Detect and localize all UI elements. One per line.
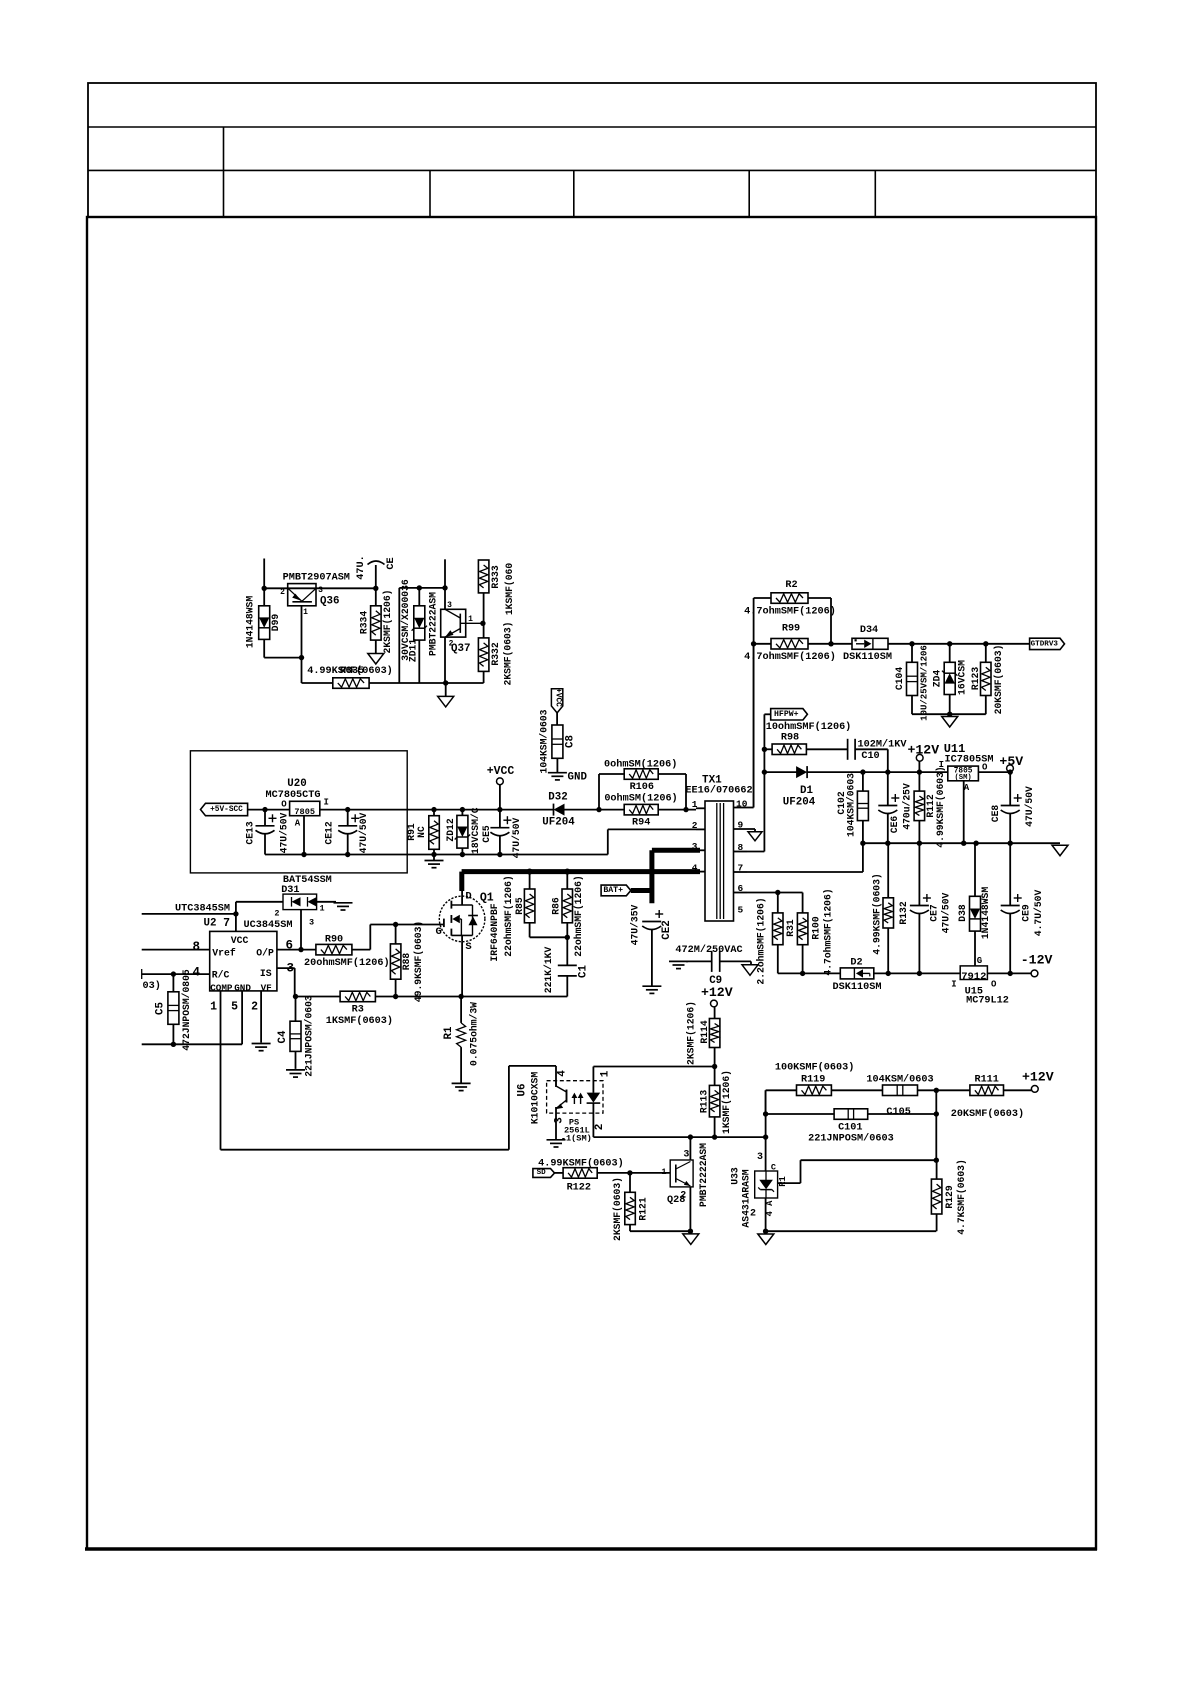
ground right of C9 <box>750 961 752 964</box>
resistor R333 <box>478 560 489 593</box>
svg-text:472JNPOSM/0805: 472JNPOSM/0805 <box>181 969 192 1051</box>
wire U33 R pin <box>778 1182 801 1184</box>
wire R119 to C105 <box>831 1089 882 1091</box>
svg-text:D38: D38 <box>957 904 968 922</box>
wire left loop up to ZD13 rail <box>398 588 400 683</box>
TX1 pin 1 stub <box>696 807 705 809</box>
junction R88 top <box>393 922 398 927</box>
svg-text:R122: R122 <box>567 1183 591 1194</box>
junction D99 top <box>262 586 267 591</box>
capacitor CE12 electrolytic <box>347 810 349 826</box>
wire R121 bottom rail <box>630 1230 690 1232</box>
svg-text:U6: U6 <box>516 1084 528 1097</box>
title block divider row3 e <box>874 170 876 217</box>
junction R88 bottom <box>393 994 398 999</box>
svg-text:47U.: 47U. <box>356 555 367 579</box>
wire R3 to source <box>375 996 567 998</box>
junction C1 top <box>565 935 570 940</box>
junction Q36 pin1 node <box>299 655 304 660</box>
svg-text:+VCC: +VCC <box>487 765 515 778</box>
diode D38 1N4148WSM <box>970 896 981 931</box>
ground TX1 pin 9 <box>754 829 756 832</box>
svg-text:R31: R31 <box>785 919 796 937</box>
svg-text:+12V: +12V <box>1022 1070 1054 1085</box>
svg-text:VF: VF <box>261 983 273 994</box>
svg-text:3: 3 <box>318 586 323 595</box>
resistor R132 <box>883 898 894 928</box>
wire C8 to GND <box>556 758 558 772</box>
svg-text:MC7805CTG: MC7805CTG <box>265 790 320 801</box>
svg-text:D: D <box>465 891 471 903</box>
resistor R85 <box>524 889 535 923</box>
node U20 ground rail <box>265 854 608 856</box>
diode D34 DSK110SM <box>852 638 888 649</box>
svg-text:VCC: VCC <box>231 935 249 946</box>
svg-text:7912: 7912 <box>961 971 986 983</box>
capacitor C102 <box>857 791 868 821</box>
wire Q37 emitter down <box>444 637 446 683</box>
svg-text:9: 9 <box>738 820 744 831</box>
svg-text:1: 1 <box>320 904 325 914</box>
svg-text:18VCSM/C: 18VCSM/C <box>470 807 481 854</box>
wire U2 COMP feedback down <box>220 991 222 1150</box>
capacitor CE5 electrolytic <box>499 810 501 828</box>
junction R334 top <box>373 586 378 591</box>
junction ground node <box>947 712 952 717</box>
svg-text:4.7KSMF(0603): 4.7KSMF(0603) <box>956 1159 967 1235</box>
svg-text:2: 2 <box>280 588 285 597</box>
svg-text:1: 1 <box>661 1167 666 1177</box>
resistor R1 0.075ohm <box>460 997 462 1023</box>
resistor R2 <box>771 593 808 604</box>
svg-text:3: 3 <box>309 918 314 928</box>
svg-text:Vref: Vref <box>212 947 236 958</box>
svg-text:R1: R1 <box>778 1176 788 1187</box>
junction CE5 bottom <box>497 852 502 857</box>
svg-text:R123: R123 <box>970 667 981 690</box>
svg-text:R3: R3 <box>352 1005 364 1016</box>
svg-text:G: G <box>435 926 441 938</box>
svg-text:2.2ohmSMF(1206): 2.2ohmSMF(1206) <box>756 897 767 984</box>
svg-text:CE9: CE9 <box>1021 904 1032 922</box>
svg-text:U20: U20 <box>287 778 306 790</box>
svg-text:22ohmSMF(1206): 22ohmSMF(1206) <box>573 875 584 956</box>
svg-text:D2: D2 <box>850 958 862 969</box>
junction U33 anode node <box>763 1229 768 1234</box>
svg-text:S: S <box>465 941 471 953</box>
junction R113 bottom <box>712 1134 717 1139</box>
svg-text:3: 3 <box>757 1152 763 1163</box>
svg-text:D1: D1 <box>800 785 813 797</box>
TX1 pin 4 stub <box>696 871 705 873</box>
zener ZD12 <box>457 815 468 848</box>
svg-text:5: 5 <box>738 905 744 916</box>
wire O/P pin6 <box>277 949 316 951</box>
svg-text:0ohmSM(1206): 0ohmSM(1206) <box>604 793 677 805</box>
svg-text:104KSM/0603: 104KSM/0603 <box>539 709 550 773</box>
svg-text:R113: R113 <box>699 1090 710 1113</box>
svg-text:20ohmSMF(1206): 20ohmSMF(1206) <box>304 957 390 969</box>
junction Q1 source node <box>458 994 463 999</box>
svg-text:UC3845SM: UC3845SM <box>244 920 293 931</box>
resistor R91 NC <box>429 816 440 850</box>
resistor R334 <box>371 606 382 640</box>
junction +5V node <box>1008 769 1013 774</box>
TX1 pin 2 stub <box>696 828 705 830</box>
wire R111 to +12V <box>1004 1089 1032 1091</box>
svg-text:47U/50V: 47U/50V <box>1024 786 1035 827</box>
capacitor C101 221JNPOSM <box>834 1109 868 1120</box>
svg-text:O: O <box>281 800 287 810</box>
MOSFET Q1 IRF640NPBF <box>439 896 485 942</box>
svg-text:C4: C4 <box>277 1030 289 1043</box>
TX1 pin 3 stub <box>696 849 705 851</box>
flag GTDRV3 <box>1030 638 1065 649</box>
wire HFPW+ to R98 junction <box>764 713 770 715</box>
wire VCC riser to D31 <box>235 902 237 932</box>
wire R98 to C10 <box>806 748 848 750</box>
resistor R94 0ohm <box>624 804 658 815</box>
svg-text:1: 1 <box>468 615 473 624</box>
schematic sheet border <box>87 217 1096 1549</box>
IC U15 MC79L12 7912 <box>960 966 987 980</box>
capacitor CE7 electrolytic <box>918 843 920 905</box>
capacitor CE2 electrolytic <box>642 921 661 923</box>
zener ZD4 <box>944 662 955 694</box>
svg-text:8: 8 <box>192 940 200 954</box>
junction D32 to R106 left <box>596 807 601 812</box>
svg-text:UF204: UF204 <box>783 797 816 809</box>
svg-text:100KSMF(0603): 100KSMF(0603) <box>775 1062 854 1074</box>
svg-text:0ohmSM(1206): 0ohmSM(1206) <box>604 759 677 771</box>
ground below Q28 <box>683 1234 699 1245</box>
svg-text:3: 3 <box>447 601 452 610</box>
svg-text:49.9KSMF(0603): 49.9KSMF(0603) <box>413 921 424 1002</box>
ground below C4 <box>286 1069 305 1071</box>
junction pin2 line right <box>763 1134 768 1139</box>
wire down to R335 row <box>301 658 303 683</box>
svg-text:O: O <box>982 763 988 773</box>
svg-text:2KSMF(0603): 2KSMF(0603) <box>503 622 514 686</box>
junction gnd rail C102 <box>860 841 865 846</box>
diode D99 <box>259 606 270 640</box>
svg-text:R332: R332 <box>490 642 501 665</box>
thick wire pin3 line <box>652 848 700 853</box>
svg-text:R114: R114 <box>699 1020 710 1043</box>
svg-text:4.7ohmSMF(1206): 4.7ohmSMF(1206) <box>823 888 834 975</box>
ground left of C9 <box>669 960 688 962</box>
svg-text:C105: C105 <box>886 1107 910 1118</box>
svg-text:DSK110SM: DSK110SM <box>843 652 892 663</box>
node secondary ground rail <box>863 842 1060 844</box>
ground below U33 <box>758 1234 774 1245</box>
wire R106 right riser <box>658 773 686 775</box>
svg-text:2: 2 <box>274 909 279 919</box>
diode D1 UF204 <box>796 766 807 778</box>
svg-text:R119: R119 <box>801 1075 825 1086</box>
svg-text:R132: R132 <box>898 901 909 924</box>
svg-text:4: 4 <box>557 1070 569 1077</box>
svg-text:1: 1 <box>692 799 698 810</box>
junction R91 bottom <box>431 852 436 857</box>
wire R122 to Q28 <box>597 1172 670 1174</box>
wire Q37 collector top vertical <box>444 559 446 588</box>
junction U2 VCC <box>233 911 238 916</box>
svg-text:7: 7 <box>738 863 744 874</box>
junction ZD12 top <box>460 807 465 812</box>
ground below CE2 <box>642 985 661 987</box>
wire Vref pin8 <box>142 949 210 951</box>
resistor R119 <box>797 1085 832 1096</box>
capacitor C1 221K/1KV <box>566 937 568 965</box>
svg-text:R99: R99 <box>782 624 800 635</box>
resistor R121 <box>625 1192 636 1224</box>
svg-text:CE8: CE8 <box>990 805 1001 823</box>
wire U20 A pin down <box>303 816 305 855</box>
wire D31 pin3 down <box>300 910 302 950</box>
svg-text:20KSMF(0603): 20KSMF(0603) <box>951 1108 1024 1120</box>
junction CE7 bottom <box>917 971 922 976</box>
power flag +VCC rotated <box>551 689 562 713</box>
wire IS pin3 <box>277 967 295 969</box>
svg-text:1N4148WSM: 1N4148WSM <box>245 596 256 649</box>
ground below R91 <box>433 855 435 861</box>
wire U33 cathode column <box>765 1090 767 1171</box>
svg-text:DSK110SM: DSK110SM <box>833 982 882 993</box>
junction C104 top <box>909 641 914 646</box>
junction gnd rail 7805A <box>961 841 966 846</box>
svg-text:IS: IS <box>260 968 272 979</box>
svg-text:CE: CE <box>386 557 397 569</box>
svg-text:2: 2 <box>594 1124 606 1131</box>
svg-text:G: G <box>977 956 982 966</box>
svg-text:47U/50V: 47U/50V <box>358 812 369 853</box>
svg-text:SD: SD <box>537 1169 547 1177</box>
svg-text:+5V: +5V <box>999 754 1023 769</box>
svg-text:+5V-SCC: +5V-SCC <box>210 806 243 814</box>
resistor R112 <box>914 791 925 821</box>
svg-text:IRF640NPBF: IRF640NPBF <box>489 903 500 961</box>
wire D2 to 7912 <box>874 972 960 974</box>
svg-text:COMP: COMP <box>210 983 233 994</box>
svg-text:-1(SM): -1(SM) <box>561 1134 592 1144</box>
svg-text:R129: R129 <box>944 1185 955 1208</box>
resistor R114 <box>709 1019 720 1048</box>
svg-text:UTC3845SM: UTC3845SM <box>175 904 230 915</box>
ground below ZD4 <box>942 717 958 728</box>
wire U2 pin5 GND down <box>241 991 243 1044</box>
junction CE12 top <box>345 807 350 812</box>
junction CE6 top <box>885 769 890 774</box>
svg-text:0.075ohm/3W: 0.075ohm/3W <box>469 1002 480 1066</box>
ground below VF <box>252 1043 271 1045</box>
ground right end of rail <box>1052 845 1068 856</box>
wire 7805 output to +5V <box>978 771 1010 773</box>
junction R121 top <box>627 1170 632 1175</box>
resistor R106 0ohm <box>624 769 658 780</box>
capacitor C10 102M/1KV <box>847 739 849 760</box>
svg-text:47U/50V: 47U/50V <box>941 892 952 933</box>
svg-text:C104: C104 <box>894 667 905 690</box>
wire pin10 riser <box>753 644 755 808</box>
junction CE5 top <box>497 807 502 812</box>
U6 led arrows <box>573 1097 575 1104</box>
transistor Q37 PMBT2222ASM <box>441 609 466 637</box>
svg-text:6: 6 <box>738 883 744 894</box>
svg-text:22ohmSMF(1206): 22ohmSMF(1206) <box>503 875 514 956</box>
wire U33 anode down <box>765 1198 767 1231</box>
svg-text:C8: C8 <box>564 735 576 748</box>
junction R123 top <box>983 641 988 646</box>
resistor R88 <box>390 944 401 979</box>
svg-text:R94: R94 <box>632 817 650 828</box>
transistor Q28 PMBT2222ASM <box>670 1160 693 1187</box>
svg-text:C10: C10 <box>861 751 879 762</box>
capacitor 104KSM/0603 <box>883 1085 918 1096</box>
junction R99 left <box>751 641 756 646</box>
svg-text:4.7ohmSMF(1206): 4.7ohmSMF(1206) <box>744 651 836 663</box>
junction R31 top <box>775 890 780 895</box>
svg-text:R335: R335 <box>340 666 364 677</box>
wire pin8 riser to D1 rail <box>763 772 765 851</box>
svg-text:8: 8 <box>738 842 744 853</box>
junction Q28 emitter node <box>688 1229 693 1234</box>
title block divider row3 d <box>748 170 750 217</box>
junction Q37 base node <box>480 621 485 626</box>
svg-text:1KSMF(0603): 1KSMF(0603) <box>326 1015 393 1027</box>
transistor Q36 PMBT2907ASM <box>288 584 316 606</box>
sheet bottom heavy line <box>85 1547 1097 1551</box>
junction R111 left <box>934 1088 939 1093</box>
resistor R123 <box>981 662 992 695</box>
U6 led diode <box>592 1067 594 1093</box>
wire C102 col down to pin7 <box>862 843 864 872</box>
svg-text:PMBT2907ASM: PMBT2907ASM <box>283 573 350 584</box>
svg-text:R121: R121 <box>638 1197 649 1220</box>
svg-text:R90: R90 <box>325 935 343 946</box>
capacitor C4 <box>290 1021 301 1051</box>
wire R/C pin4 <box>142 973 210 975</box>
TX1 pin 7 stub <box>734 871 748 873</box>
svg-text:ZD4: ZD4 <box>932 670 943 688</box>
capacitor CE8 electrolytic <box>1009 772 1011 805</box>
svg-text:O/P: O/P <box>256 947 274 958</box>
flag +5V-SCC <box>201 803 248 815</box>
resistor R86 <box>562 889 573 923</box>
ground below Q37 <box>445 683 447 696</box>
junction C101 row left <box>763 1111 768 1116</box>
svg-text:10ohmSMF(1206): 10ohmSMF(1206) <box>766 721 852 733</box>
svg-text:104KSM/0603: 104KSM/0603 <box>866 1074 933 1086</box>
svg-text:C: C <box>771 1162 776 1172</box>
svg-text:A: A <box>295 819 301 829</box>
junction R114 bottom <box>712 1064 717 1069</box>
wire 7805 A pin down <box>963 781 965 843</box>
capacitor C104 <box>907 662 918 695</box>
junction R129 top <box>934 1158 939 1163</box>
title block divider row2 <box>223 127 225 170</box>
TX1 pin 10 stub <box>734 807 748 809</box>
svg-text:3: 3 <box>554 1117 566 1124</box>
node source line <box>295 996 340 998</box>
svg-text:Q37: Q37 <box>451 643 470 655</box>
resistor R335 4.99K <box>333 678 369 689</box>
zener ZD13 <box>414 606 425 640</box>
svg-text:R333: R333 <box>490 565 501 588</box>
capacitor CE13 electrolytic <box>264 810 266 826</box>
svg-text:221K/1KV: 221K/1KV <box>543 947 554 994</box>
junction D1 anode <box>762 769 767 774</box>
TX1 pin 8 stub <box>734 851 748 853</box>
wire R pin row <box>801 1159 937 1161</box>
title block row line 1 <box>88 126 1096 128</box>
U6 pin4 wire <box>555 1066 557 1087</box>
svg-text:4.99KSMF(0603): 4.99KSMF(0603) <box>935 766 946 847</box>
flag BAT+ <box>601 885 631 896</box>
ground below R334 <box>368 654 384 665</box>
title block divider row3 a <box>223 170 225 217</box>
svg-text:R86: R86 <box>551 897 562 915</box>
junction gnd rail D38 <box>973 841 978 846</box>
junction CE12 bottom <box>345 852 350 857</box>
svg-text:R106: R106 <box>630 782 654 793</box>
resistor R129 <box>931 1179 942 1214</box>
svg-text:R98: R98 <box>781 733 799 744</box>
svg-text:MC79L12: MC79L12 <box>966 996 1009 1007</box>
U6 pin3 wire <box>555 1107 557 1140</box>
svg-text:U2: U2 <box>204 918 217 930</box>
wire cap to R111 <box>918 1089 970 1091</box>
wire pin6 line <box>747 892 803 894</box>
svg-text:104KSM/0603: 104KSM/0603 <box>845 773 856 837</box>
wire R106 left riser <box>598 774 600 810</box>
svg-text:472M/250VAC: 472M/250VAC <box>675 944 742 956</box>
node -12V rail <box>778 972 841 974</box>
svg-text:1: 1 <box>210 1000 217 1013</box>
junction gnd rail CE6 <box>885 841 890 846</box>
junction R100 bottom <box>800 971 805 976</box>
svg-text:470u/25V: 470u/25V <box>901 783 912 830</box>
svg-text:CE13: CE13 <box>245 821 256 844</box>
svg-text:2: 2 <box>251 1000 258 1013</box>
node D1 output rail <box>764 771 797 773</box>
junction R99 right <box>828 641 833 646</box>
resistor R31 <box>773 913 784 945</box>
junction R85 top <box>527 869 533 875</box>
junction R86 top <box>564 869 570 875</box>
ground U6 pin3 <box>547 1139 566 1141</box>
resistor R90 <box>316 944 352 955</box>
junction R132 bottom <box>886 971 891 976</box>
wire C104 ZD4 R123 bottom rail <box>912 713 986 715</box>
thick wire BAT+ stub <box>631 888 652 893</box>
wire C101 to R129 column <box>868 1113 937 1115</box>
svg-text:CE7: CE7 <box>929 904 940 922</box>
resistor R122 <box>563 1168 597 1179</box>
junction C101 right <box>934 1111 939 1116</box>
diode D2 DSK110SM <box>840 968 874 979</box>
svg-text:221JNPOSM/0603: 221JNPOSM/0603 <box>304 995 315 1077</box>
svg-text:ZD12: ZD12 <box>445 818 456 841</box>
svg-text:HFPW+: HFPW+ <box>774 710 799 719</box>
TX1 pin 6 stub <box>734 892 748 894</box>
junction pin1 node <box>683 807 688 812</box>
svg-text:Q1: Q1 <box>480 891 494 904</box>
wire U2 pin2 VF down <box>260 991 262 1043</box>
wire D34 to GTDRV3 <box>888 643 1030 645</box>
svg-text:2KSMF(0603): 2KSMF(0603) <box>612 1177 623 1241</box>
svg-text:R100: R100 <box>811 916 822 939</box>
